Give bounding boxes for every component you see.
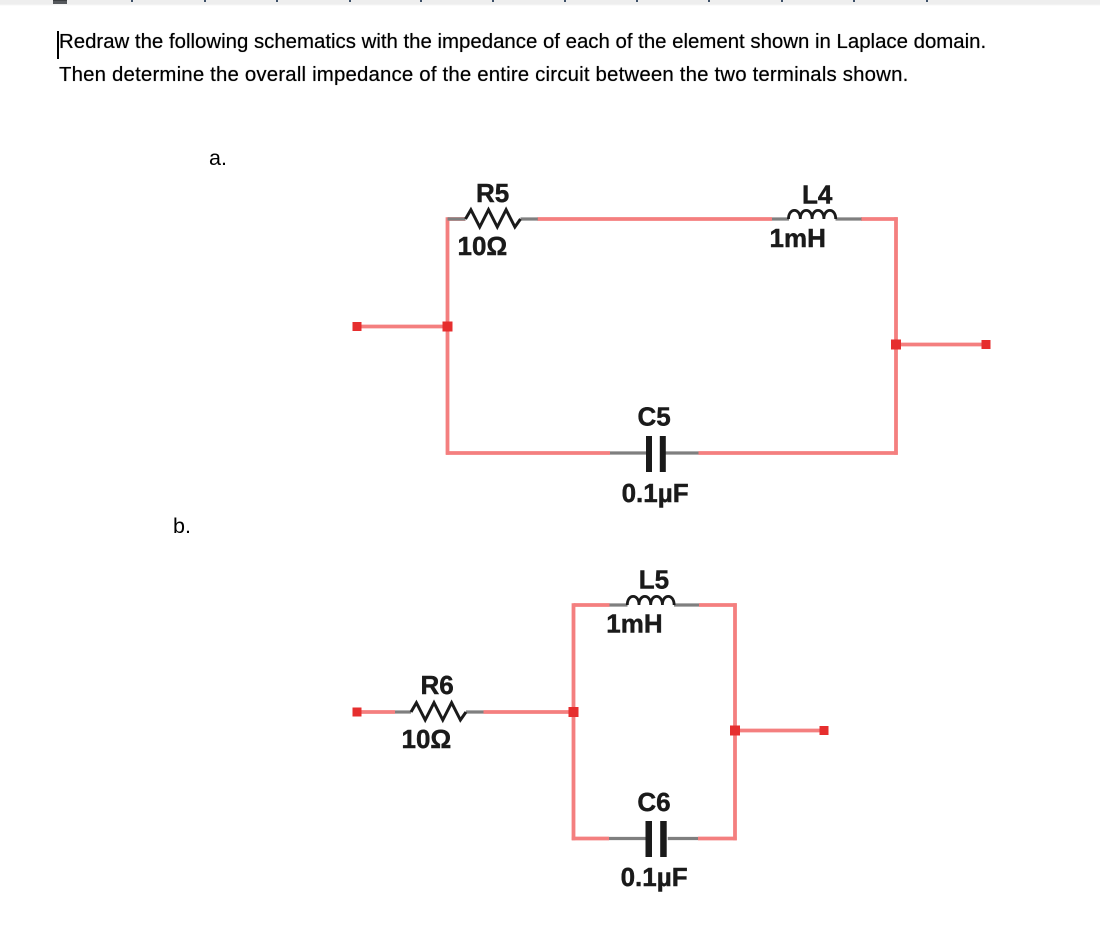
wire: bottom side red left of C5 — [446, 451, 610, 455]
capacitor C6 — [609, 821, 698, 857]
svg-text:L5: L5 — [639, 565, 669, 595]
svg-text:L4: L4 — [802, 180, 833, 210]
wire: top-right red segment after L4 to corner — [861, 217, 898, 221]
wire: input red from terminal to R6 — [357, 710, 395, 714]
ruler ticks — [131, 0, 133, 2]
wire: bottom side red right of C5 — [699, 451, 898, 455]
svg-text:10Ω: 10Ω — [458, 231, 508, 261]
wire: right terminal stub of circuit a — [896, 343, 986, 347]
junction node left of circuit a — [443, 322, 453, 332]
label a. — [209, 146, 227, 171]
wire: top-left red segment of top side (corner to R5 lead) — [448, 217, 466, 221]
problem statement line 2 — [59, 64, 908, 87]
junction node right of loop b — [730, 726, 740, 736]
wire: right vertical side of loop a — [894, 217, 898, 454]
terminal dot left of circuit b — [353, 708, 362, 717]
wire: left vertical side of loop b — [572, 603, 576, 840]
inductor L4 — [772, 210, 862, 219]
svg-text:R6: R6 — [421, 670, 454, 700]
capacitor C5 — [610, 436, 699, 472]
problem statement line 1 — [59, 31, 986, 54]
svg-text:0.1µF: 0.1µF — [621, 862, 688, 892]
label b. — [173, 514, 191, 539]
inductor L5 — [610, 596, 700, 605]
resistor R5 — [448, 210, 538, 227]
svg-text:10Ω: 10Ω — [402, 724, 452, 754]
wire: bottom side red left of C6 — [572, 837, 609, 841]
svg-text:1mH: 1mH — [770, 223, 826, 253]
wire: bottom side red right of C6 — [698, 837, 737, 841]
svg-text:C6: C6 — [637, 787, 670, 817]
wire: left terminal stub of circuit a — [357, 325, 448, 329]
text cursor bar — [57, 31, 59, 59]
junction node left of loop b — [569, 707, 579, 717]
wire: red from R6 to left side of loop b — [484, 710, 576, 714]
terminal dot right of circuit a — [982, 340, 991, 349]
resistor R6 — [395, 703, 484, 720]
wire: top side red left of L5 — [574, 603, 610, 607]
wire: left vertical side of loop a — [446, 217, 450, 454]
svg-text:1mH: 1mH — [606, 609, 662, 639]
ruler dark fragment — [53, 0, 67, 4]
svg-text:C5: C5 — [638, 402, 671, 432]
svg-text:R5: R5 — [476, 178, 509, 208]
top ruler strip — [0, 0, 1100, 4]
terminal dot left of circuit a — [353, 322, 362, 331]
junction node right of circuit a — [891, 340, 901, 350]
svg-text:0.1µF: 0.1µF — [622, 478, 689, 508]
terminal dot right of circuit b — [820, 726, 829, 735]
wire: right vertical side of loop b — [733, 603, 737, 840]
wire: right terminal stub of circuit b — [735, 729, 824, 733]
wire: top side red right of L5 — [699, 603, 737, 607]
wire: top side red between R5 and L4 — [538, 217, 773, 221]
